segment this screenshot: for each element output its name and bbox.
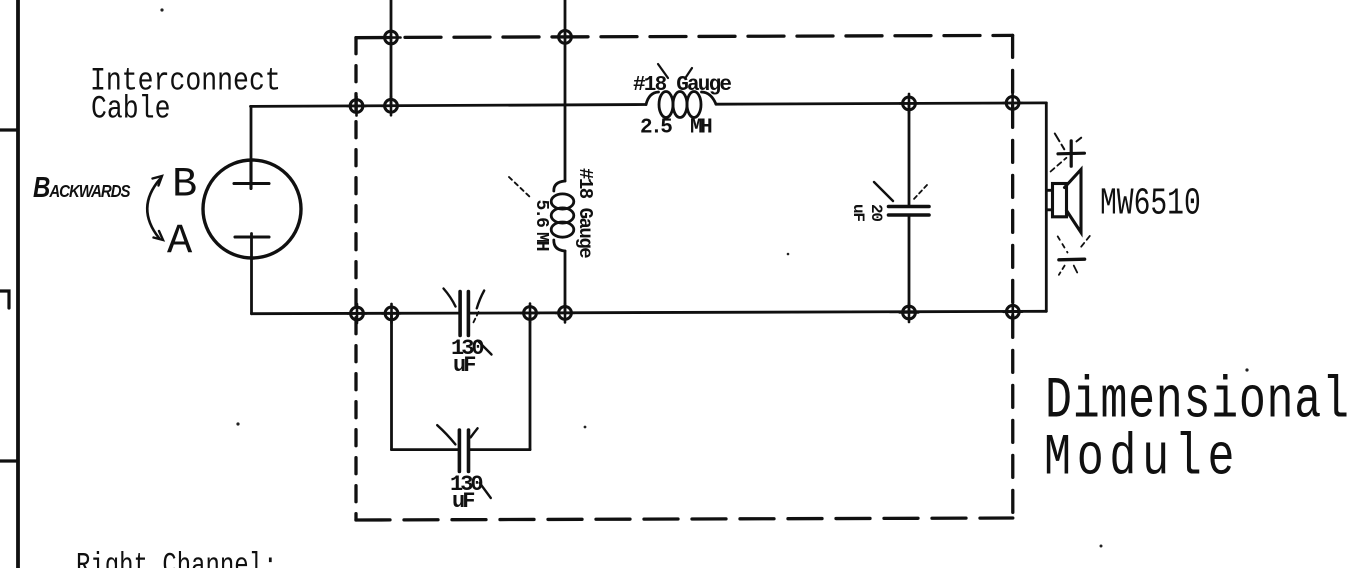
capacitor C2 flourish right	[471, 428, 478, 437]
node at (1013,103)	[1003, 93, 1022, 112]
wire C2 branch bottom left	[392, 448, 460, 451]
dashed module box top edge	[356, 35, 1013, 37]
svg-text:MH: MH	[690, 117, 712, 140]
node at (391,37)	[382, 31, 401, 44]
svg-text:uF: uF	[452, 489, 474, 514]
svg-text:Cable: Cable	[91, 90, 170, 127]
capacitor C2 130uF plates	[459, 430, 468, 472]
svg-text:20: 20	[867, 204, 885, 221]
svg-text:MW6510: MW6510	[1100, 183, 1201, 226]
wire connector drop	[250, 106, 253, 160]
node at (565,37)	[556, 31, 575, 44]
connector J1 sleeve contact bar	[235, 235, 269, 238]
svg-text:5.6: 5.6	[531, 200, 551, 228]
wire C3 shunt upper	[908, 103, 911, 206]
wire bottom horizontal left of C1	[252, 312, 461, 315]
wire bottom horizontal right of C1	[469, 311, 1047, 313]
svg-text:uF: uF	[849, 204, 867, 221]
inductor L2 .56MH body vertical	[551, 181, 574, 251]
annotation arrow head bottom	[154, 231, 164, 240]
wire connector bottom to bus	[250, 234, 253, 314]
svg-text:Right Channel:: Right Channel:	[76, 548, 277, 568]
annotation arrow head top	[153, 176, 163, 186]
svg-text:MH: MH	[531, 232, 551, 251]
wire top horizontal right of L1	[716, 103, 1046, 104]
inductor L2 dashed leader	[509, 177, 532, 199]
dashed module box right edge	[1011, 35, 1015, 518]
capacitor C1 flourish right	[477, 291, 484, 309]
wire C2 branch right vertical	[529, 313, 532, 449]
speaker minus ray SW	[1059, 266, 1065, 275]
node at (391,106)	[382, 96, 401, 115]
inductor L1 2.5MH body	[646, 92, 716, 118]
svg-text:A: A	[167, 218, 193, 266]
node at (530,313)	[521, 304, 540, 323]
wire top horizontal left of L1	[251, 105, 647, 107]
left page border line	[16, 0, 20, 568]
node at (392,313)	[382, 304, 401, 323]
wire tweeter feed vertical at x=565 upper	[564, 0, 567, 181]
speaker minus symbol	[1059, 258, 1085, 262]
wire C3 shunt lower	[908, 215, 911, 312]
speaker plus ray NE	[1077, 138, 1082, 142]
left border tick lower	[0, 459, 17, 462]
svg-text:B: B	[172, 161, 197, 209]
left border tick upper	[0, 128, 17, 131]
scan speck dots	[160, 8, 1248, 547]
connector J1 tip contact bar	[234, 161, 269, 189]
svg-text:#18 Gauge: #18 Gauge	[574, 168, 596, 258]
svg-text:uF: uF	[453, 353, 475, 378]
capacitor C3 dashed leader	[913, 185, 927, 200]
capacitor C2 label leader	[480, 483, 491, 498]
svg-text:Module: Module	[1044, 425, 1240, 491]
speaker minus ray NE	[1081, 236, 1090, 247]
speaker minus ray SE	[1074, 266, 1077, 273]
speaker LS1 terminal stub lower	[1047, 208, 1053, 211]
speaker plus ray NW	[1055, 134, 1065, 150]
inductor L1 leader tick left	[658, 64, 668, 78]
wire C2 branch left vertical	[390, 314, 393, 450]
inductor L1 leader tick right	[686, 68, 692, 77]
connector J1 circle	[203, 160, 301, 258]
capacitor C1 130uF plates	[460, 292, 468, 336]
wire C2 branch bottom right	[469, 448, 531, 451]
svg-text:#18 Gauge: #18 Gauge	[633, 74, 731, 97]
capacitor C1 label leader	[478, 341, 492, 355]
capacitor C1 flourish left	[444, 289, 456, 307]
speaker plus ray SW	[1051, 158, 1067, 172]
wire right vertical to speaker	[1045, 103, 1048, 311]
capacitor C3 label leader	[874, 182, 893, 201]
node at (909,103)	[900, 94, 919, 113]
capacitor C1 flourish dashed	[472, 312, 479, 325]
dashed module box bottom edge	[356, 518, 1013, 520]
speaker LS1 cone	[1065, 170, 1082, 233]
speaker minus ray NW	[1058, 236, 1068, 252]
node at (565,313)	[556, 303, 575, 322]
wire tweeter feed vertical at x=565 lower	[564, 251, 567, 313]
node at (357,313)	[348, 304, 367, 323]
speaker LS1 magnet box	[1053, 184, 1067, 217]
speaker plus symbol	[1058, 141, 1084, 166]
speaker LS1 terminal stub upper	[1047, 189, 1053, 192]
capacitor C3 20uF plates	[889, 207, 930, 216]
svg-text:2.5: 2.5	[640, 117, 672, 140]
wire top feed vertical at x=391	[390, 0, 393, 106]
left border hook	[0, 291, 9, 308]
node at (909,312)	[900, 303, 919, 322]
annotation arrow arc	[147, 179, 160, 238]
dashed module box left edge	[354, 38, 357, 520]
node at (1013,312)	[1003, 302, 1022, 321]
capacitor C2 flourish left	[437, 425, 455, 444]
node at (356,106)	[347, 97, 366, 116]
